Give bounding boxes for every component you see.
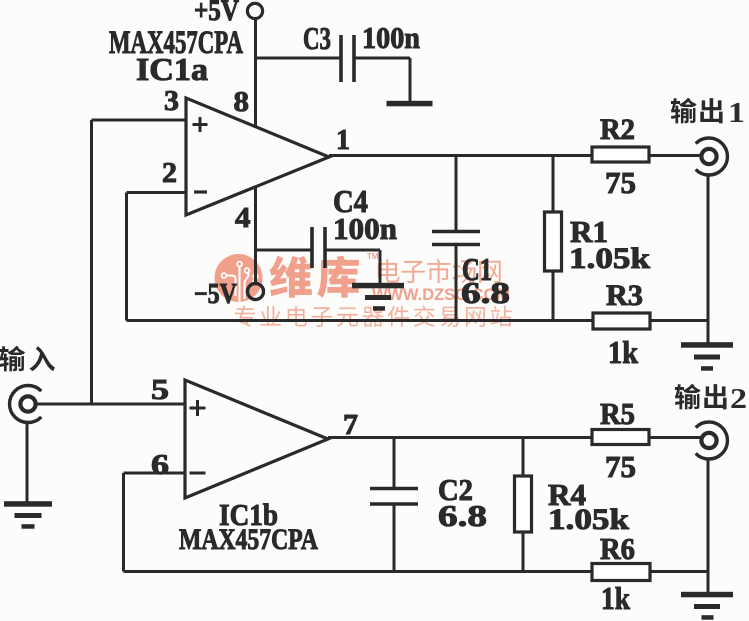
- op-amp IC1a: [186, 98, 329, 215]
- op-amp IC1b: [185, 380, 328, 498]
- label 输出1: [671, 98, 745, 129]
- wire input: [37, 403, 185, 406]
- wire R5 to output2: [649, 436, 701, 439]
- wire op-amp2 output: [328, 436, 592, 439]
- label C4 value 100n: [333, 211, 397, 246]
- svg-text:+5V: +5V: [194, 0, 239, 27]
- label R5 value 75: [605, 449, 636, 484]
- pin number 8: [234, 86, 250, 118]
- wire C4 branch: [256, 249, 313, 252]
- svg-text:C3: C3: [303, 20, 331, 56]
- wire feedback bus (upper): [127, 319, 594, 322]
- svg-text:1: 1: [728, 98, 745, 129]
- watermark TM: [367, 252, 379, 261]
- op-amp IC1a minus input marker: [194, 190, 207, 193]
- wire R1 bottom: [552, 271, 555, 321]
- watermark text 电子市场网: [378, 259, 501, 283]
- wire R4 bottom: [522, 532, 525, 572]
- wire output1 down: [707, 175, 710, 343]
- svg-text:6.8: 6.8: [461, 275, 510, 310]
- wire C2 top: [393, 438, 396, 489]
- wire pin4 vertical: [254, 187, 257, 284]
- label C1: [462, 251, 492, 287]
- wire R6 to output2 vertical: [650, 570, 708, 573]
- resistor R3: [593, 313, 650, 329]
- label +5V: [194, 0, 239, 27]
- label 输入: [0, 346, 55, 371]
- label R2: [600, 113, 635, 146]
- label IC1b: [219, 497, 278, 532]
- wire C1 bottom: [455, 244, 458, 321]
- pin number 2: [162, 157, 177, 189]
- wire pin6: [124, 472, 186, 475]
- wire R2 to output1: [649, 154, 701, 157]
- svg-text:75: 75: [605, 449, 636, 484]
- ground (C3): [387, 101, 433, 107]
- svg-text:100n: 100n: [362, 20, 420, 55]
- label MAX457CPA (IC1a): [109, 25, 243, 61]
- resistor R2: [592, 147, 649, 162]
- wire output2 down: [707, 459, 710, 592]
- capacitor C4: [312, 227, 325, 268]
- pin number 4: [235, 202, 251, 234]
- resistor R6: [592, 564, 650, 581]
- resistor R1: [545, 212, 562, 271]
- label R5: [600, 396, 635, 431]
- ground (input): [4, 501, 52, 529]
- ground (output1): [681, 342, 733, 371]
- label R3 value 1k: [608, 334, 638, 370]
- svg-text:MAX457CPA: MAX457CPA: [179, 523, 318, 556]
- wire C3 branch: [256, 57, 342, 60]
- wire C2 bottom: [393, 504, 396, 572]
- output terminal 2 (coax): [696, 422, 728, 459]
- wire +5V drop: [254, 18, 257, 128]
- output terminal 1 (coax): [696, 138, 728, 175]
- watermark logo circle: [215, 254, 263, 302]
- svg-text:2: 2: [162, 157, 177, 189]
- label IC1a: [136, 51, 208, 87]
- svg-text:R2: R2: [600, 113, 635, 146]
- svg-text:100n: 100n: [333, 211, 397, 246]
- label C1 value 6.8: [461, 275, 510, 310]
- pin number 5: [151, 374, 169, 406]
- wire R4 top: [522, 438, 525, 477]
- svg-text:TM: TM: [367, 252, 379, 261]
- svg-text:1k: 1k: [608, 334, 638, 370]
- capacitor C2: [370, 489, 418, 505]
- svg-text:R3: R3: [606, 279, 643, 312]
- label C2: [438, 472, 473, 507]
- wire C1 top: [455, 156, 458, 232]
- wire pin2: [127, 191, 188, 194]
- op-amp IC1b plus input marker: [190, 400, 206, 416]
- svg-text:4: 4: [235, 202, 251, 234]
- svg-text:75: 75: [605, 165, 636, 200]
- pin number 1: [336, 124, 350, 156]
- label 输出2: [675, 384, 747, 415]
- wire pin3 input: [92, 119, 188, 122]
- watermark text 专业电子元器件交易网站: [235, 305, 512, 326]
- power terminal +5V: [247, 3, 262, 18]
- wire op-amp1 output: [329, 154, 592, 157]
- label R4 value 1.05k: [548, 503, 629, 536]
- label R3: [606, 279, 643, 312]
- label R6 value 1k: [601, 580, 630, 616]
- label R6: [600, 531, 635, 566]
- resistor R4: [515, 476, 532, 532]
- op-amp IC1b minus input marker: [190, 472, 206, 475]
- watermark text 维库: [270, 256, 359, 298]
- svg-text:−5V: −5V: [194, 279, 237, 310]
- pin number 7: [343, 409, 358, 441]
- label R4: [548, 477, 586, 512]
- wire R1 top: [552, 156, 555, 213]
- watermark url WWW.DZSC.COM: [372, 285, 510, 304]
- label C3 value 100n: [362, 20, 420, 55]
- pin number 6: [151, 449, 169, 481]
- resistor R5: [592, 430, 649, 445]
- label C4: [333, 183, 368, 219]
- label -5V: [194, 279, 237, 310]
- wire R3 to output1 vertical: [650, 319, 708, 322]
- wire C4 to ground: [325, 250, 380, 283]
- label C2 value 6.8: [438, 498, 487, 533]
- wire input ground vertical: [26, 422, 29, 502]
- svg-text:IC1a: IC1a: [136, 51, 208, 87]
- op-amp IC1a plus input marker: [193, 117, 208, 132]
- svg-text:1: 1: [336, 124, 350, 156]
- svg-text:3: 3: [164, 85, 179, 117]
- label R1 value 1.05k: [569, 242, 650, 275]
- pin number 3: [164, 85, 179, 117]
- power terminal -5V: [248, 284, 264, 300]
- label MAX457CPA (IC1b): [179, 523, 318, 556]
- ground (output2): [681, 592, 733, 620]
- wire C3 to ground: [354, 58, 410, 102]
- wire left vertical (input to pin3): [90, 120, 93, 404]
- capacitor C1: [432, 232, 480, 245]
- input terminal (coax): [10, 385, 42, 422]
- svg-text:6: 6: [151, 449, 169, 481]
- svg-text:R6: R6: [600, 531, 635, 566]
- label R1: [570, 214, 608, 249]
- wire feedback bus (lower): [124, 570, 593, 573]
- label C3: [303, 20, 331, 56]
- wire pin6 feedback vertical: [122, 473, 125, 572]
- capacitor C3: [341, 35, 354, 82]
- svg-text:6.8: 6.8: [438, 498, 487, 533]
- svg-text:R5: R5: [600, 396, 635, 431]
- ground (C4): [352, 283, 404, 311]
- svg-text:2: 2: [730, 384, 747, 415]
- svg-text:5: 5: [151, 374, 169, 406]
- label R2 value 75: [605, 165, 636, 200]
- svg-text:8: 8: [234, 86, 250, 118]
- svg-text:1k: 1k: [601, 580, 630, 616]
- wire pin2 feedback vertical: [125, 193, 128, 321]
- svg-text:1.05k: 1.05k: [569, 242, 650, 275]
